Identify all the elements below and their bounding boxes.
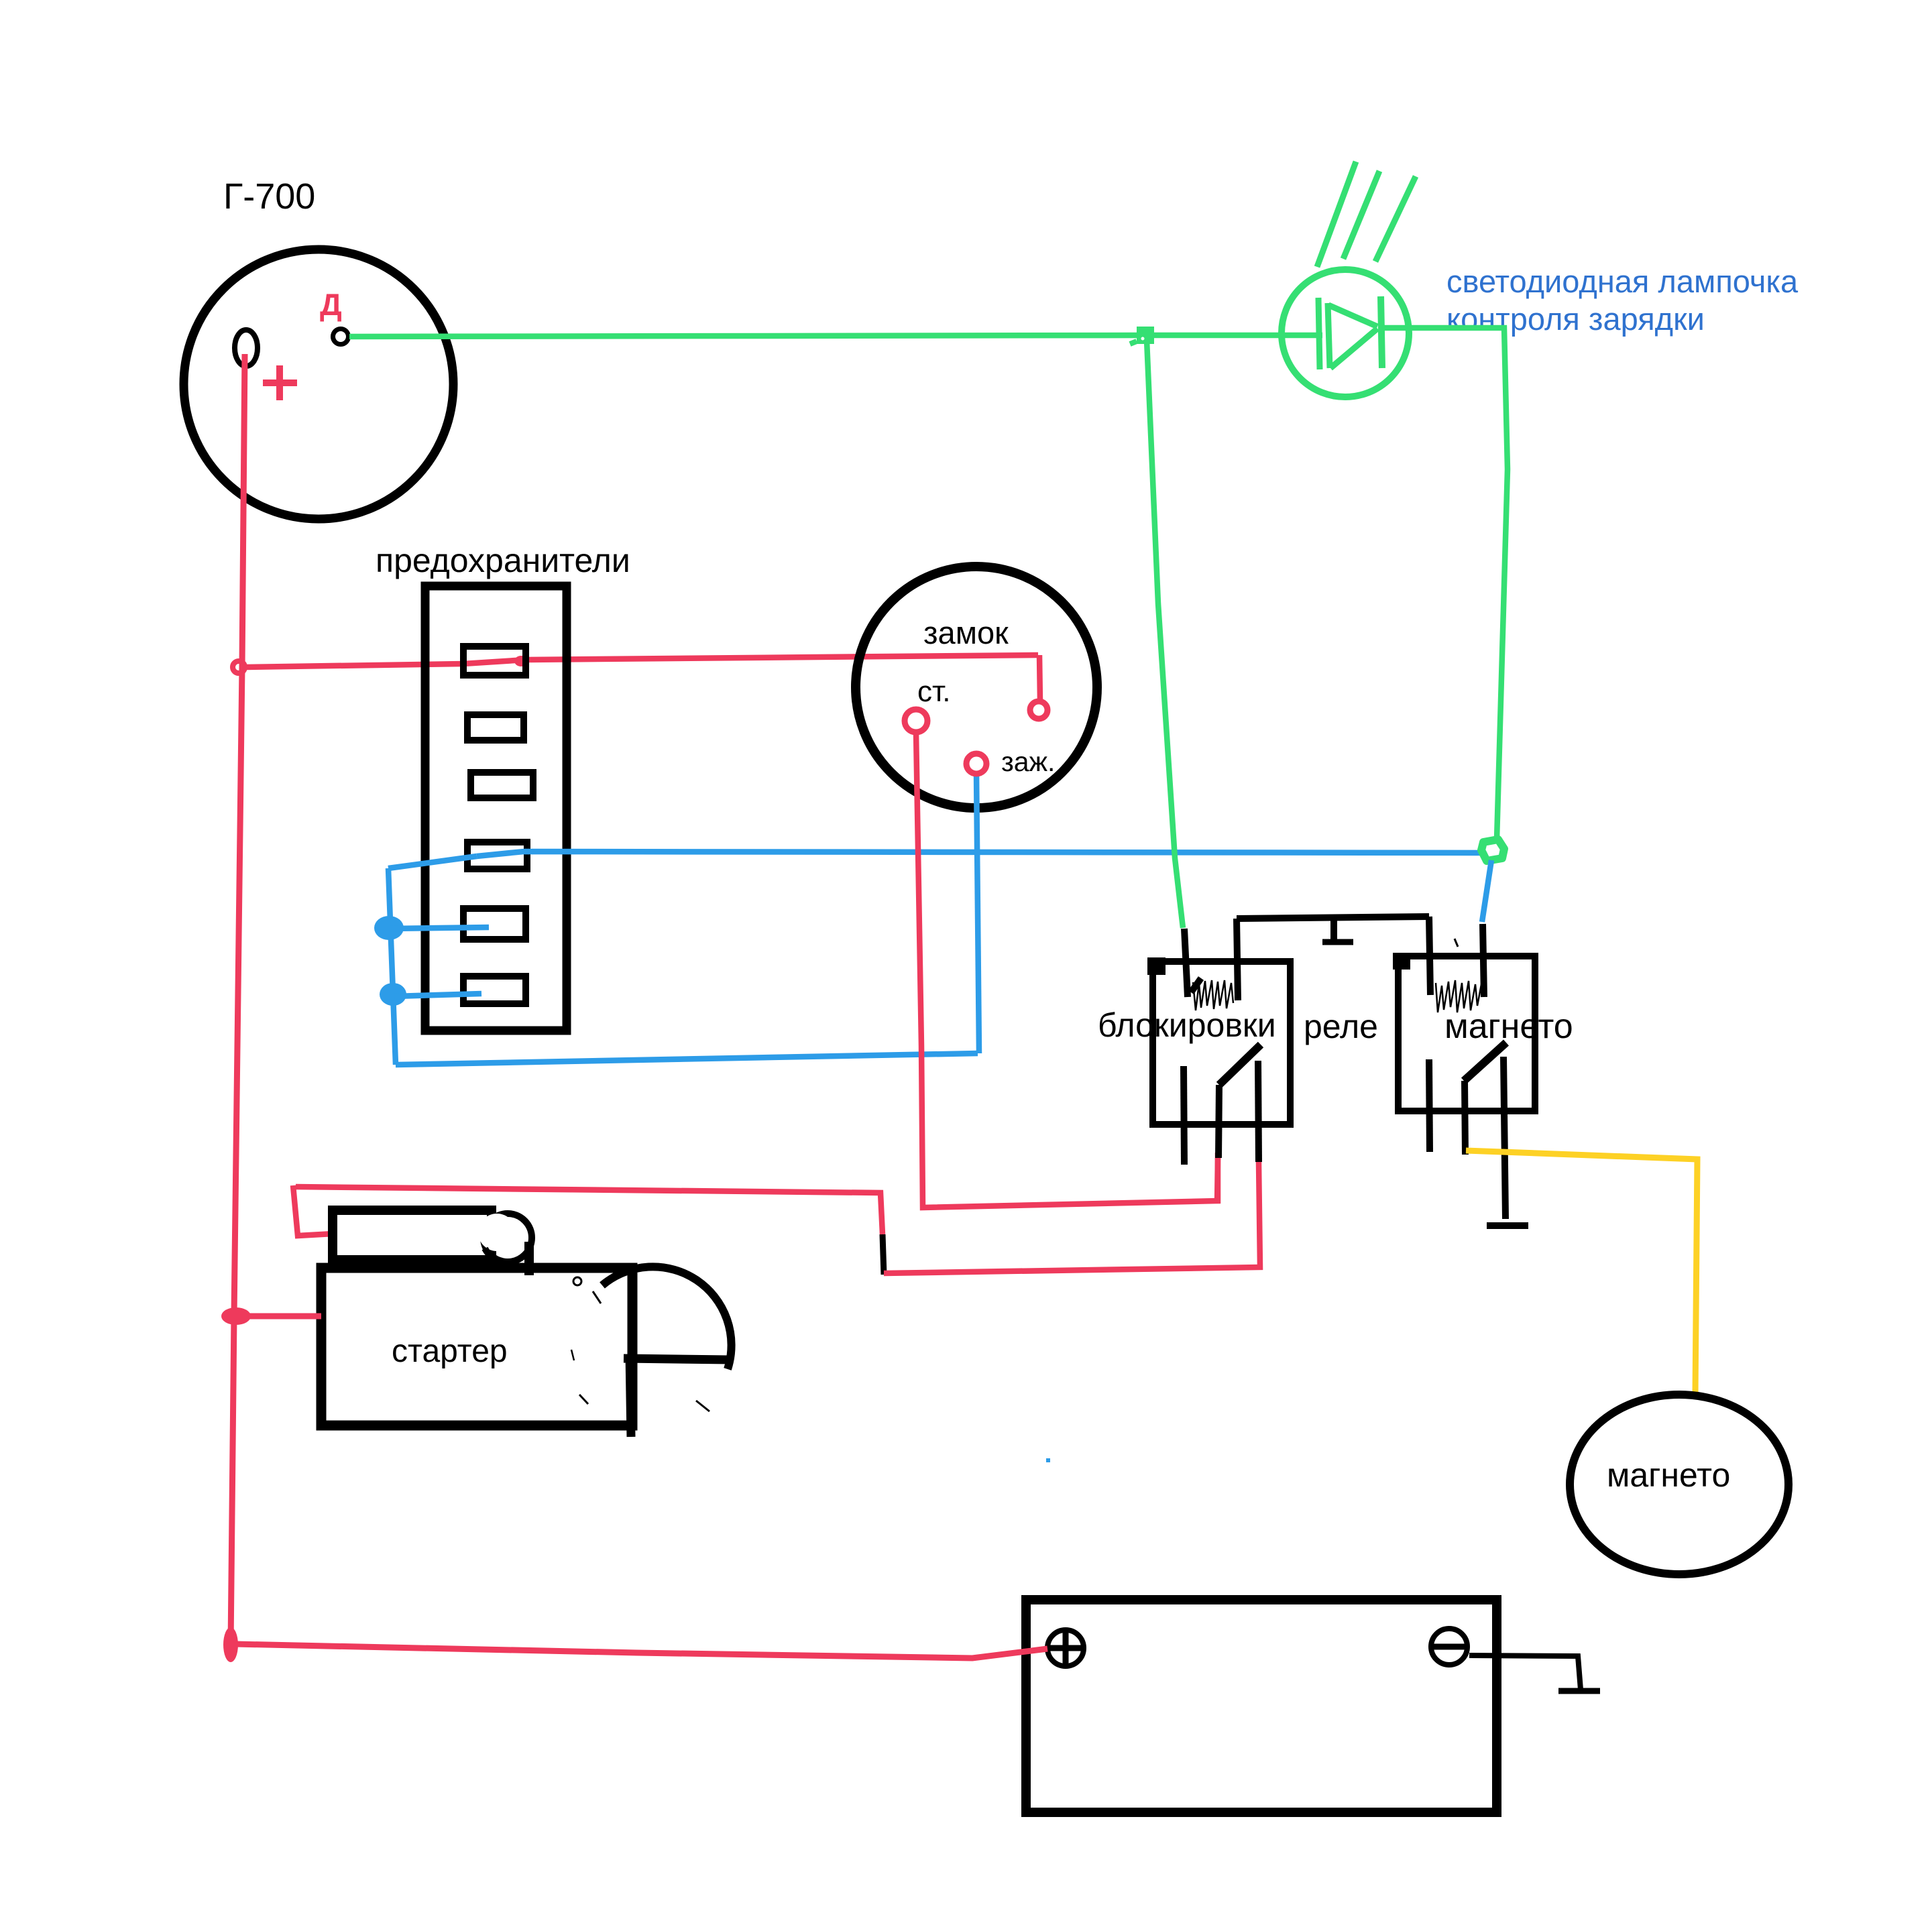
generator D terminal	[333, 329, 349, 345]
wire red bend into solenoid	[293, 1185, 333, 1236]
generator plus terminal oval	[235, 330, 258, 366]
wire blue bottom horizontal to ignition	[396, 1053, 978, 1065]
wire red relay1 middle pin stub	[1217, 1158, 1218, 1204]
relay2 corner square	[1393, 953, 1410, 970]
svg-text:замок: замок	[923, 615, 1009, 650]
fuse F2	[467, 715, 524, 740]
node junction bus to starter	[221, 1307, 251, 1325]
wire black battery minus to ground	[1469, 1655, 1581, 1690]
wire black relay top horizontal	[1237, 917, 1429, 919]
LED lamp circle	[1282, 270, 1409, 397]
node junction bus to battery	[223, 1627, 238, 1662]
lock st terminal	[905, 709, 927, 732]
wire red main bus from generator plus	[231, 354, 245, 1646]
relay1 pin bottom left	[1184, 1066, 1184, 1165]
wire green junction down to relay1	[1147, 340, 1183, 928]
LED ray 3	[1375, 176, 1416, 261]
relay2 pin bottom middle	[1465, 1081, 1465, 1155]
fuse box outline	[425, 586, 567, 1031]
relay1 coil	[1193, 980, 1233, 1010]
wire blue from fuse F4 to relay junction	[477, 852, 1491, 856]
relay1 блокировки box	[1153, 961, 1290, 1124]
node red blob in fuse F1	[514, 656, 528, 666]
ground stub on top wire	[1330, 919, 1337, 941]
flywheel small circle	[573, 1277, 581, 1285]
flywheel horizontal bar	[624, 1358, 730, 1360]
lock loop terminal	[1030, 701, 1047, 719]
LED anode bar	[1318, 298, 1320, 369]
node green junction right	[1481, 839, 1504, 861]
wire blue branch to F5	[390, 927, 489, 929]
battery minus terminal	[1431, 1629, 1467, 1665]
lock zazh terminal	[966, 754, 986, 774]
wire blue left bus vertical	[388, 868, 396, 1065]
fuse F4	[467, 842, 527, 869]
LED cathode bar	[1381, 296, 1382, 368]
wire red bus to fuse F1	[246, 655, 1038, 667]
svg-text:заж.: заж.	[1001, 746, 1055, 777]
svg-text:реле: реле	[1304, 1008, 1378, 1045]
starter solenoid box	[333, 1210, 492, 1260]
wire blue ignition vertical	[976, 772, 979, 1053]
fuse F5	[463, 909, 526, 939]
relay1 pin top2	[1237, 919, 1238, 1000]
node blue junction to F6	[380, 983, 406, 1006]
svg-text:стартер: стартер	[392, 1334, 508, 1369]
LED ray 1	[1317, 162, 1356, 267]
wire red bus to battery plus	[235, 1644, 1047, 1658]
relay1 pin bottom middle	[1218, 1085, 1219, 1158]
wire green LED to right vertical	[1383, 328, 1508, 839]
svg-text:Г-700: Г-700	[223, 176, 315, 217]
svg-text:магнето: магнето	[1607, 1456, 1730, 1494]
LED triangle	[1328, 303, 1330, 368]
starter solenoid circle	[484, 1214, 532, 1262]
wire black segment	[883, 1234, 884, 1275]
svg-text:предохранители: предохранители	[376, 542, 630, 579]
relay2 pin bottom right with ground	[1503, 1057, 1505, 1219]
relay1 pin green side	[1184, 929, 1188, 997]
wire red down to lock loop terminal	[1039, 655, 1040, 701]
flywheel vertical bar	[630, 1354, 631, 1437]
wire blue branch to F6	[394, 994, 481, 996]
wire red from st terminal to relay1 pin	[916, 732, 1218, 1208]
generator plus sign	[263, 365, 297, 400]
starter box	[321, 1268, 632, 1425]
battery box	[1026, 1600, 1497, 1812]
relay1 corner square	[1147, 957, 1166, 975]
relay1 switch	[1219, 1045, 1261, 1085]
wire green junction to LED	[1154, 333, 1322, 339]
fuse F6	[463, 976, 526, 1004]
svg-text:блокировки: блокировки	[1098, 1006, 1276, 1044]
svg-text:Д: Д	[320, 287, 342, 322]
relay2 магнето box	[1398, 956, 1535, 1111]
wire red lower horizontal to relay1	[884, 1162, 1260, 1273]
fuse F1	[463, 646, 526, 675]
svg-text:ст.: ст.	[917, 675, 951, 708]
relay2 pin blue black part	[1483, 924, 1484, 997]
wire yellow relay2 to magneto	[1466, 1151, 1697, 1395]
flywheel arc	[602, 1267, 732, 1369]
svg-text:светодиодная лампочка: светодиодная лампочка	[1446, 264, 1799, 299]
fuse F3	[471, 772, 533, 798]
svg-text:магнето: магнето	[1444, 1007, 1573, 1046]
magneto ellipse	[1570, 1395, 1788, 1574]
generator G-700 body circle	[184, 249, 453, 519]
relay2 switch	[1464, 1043, 1506, 1081]
relay2 pin bottom left	[1429, 1059, 1430, 1152]
node junction bus to fuse	[233, 661, 245, 673]
relay1 pin tick	[1191, 978, 1201, 992]
wire blue from green junction to relay2	[1482, 860, 1491, 922]
wire green from D terminal to junction	[349, 335, 1144, 337]
node blue junction to F5	[374, 916, 404, 940]
relay2 coil	[1436, 980, 1481, 1012]
wire red from starter top to relay1 right pin	[296, 1187, 883, 1234]
speck black tick	[1455, 939, 1458, 947]
node green junction	[1137, 327, 1154, 344]
wire red bus to starter	[241, 1313, 321, 1320]
relay2 pin from top wire	[1429, 917, 1430, 995]
svg-text:контроля зарядки: контроля зарядки	[1446, 301, 1705, 337]
LED ray 2	[1343, 171, 1379, 259]
battery plus terminal	[1047, 1630, 1084, 1666]
wire blue F4 to left bus	[388, 856, 477, 868]
relay1 pin bottom right	[1258, 1061, 1259, 1162]
ignition lock circle	[856, 567, 1097, 808]
speck blue	[1046, 1458, 1050, 1462]
flywheel faint arc fragments	[593, 1291, 601, 1303]
